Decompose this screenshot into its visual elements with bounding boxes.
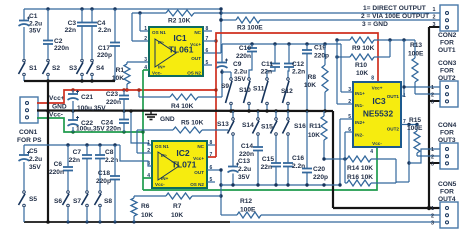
wire GND bottom rail: [24, 220, 440, 224]
svg-text:R1: R1: [116, 67, 125, 74]
svg-text:OS N2: OS N2: [190, 182, 204, 187]
svg-text:S15: S15: [261, 124, 273, 131]
capacitor C1: [19, 9, 43, 59]
wire GND trunk left: [47, 81, 49, 222]
svg-text:C18: C18: [98, 170, 110, 177]
svg-text:IN+: IN+: [158, 65, 166, 70]
capacitor C15: [261, 156, 281, 185]
svg-text:10K: 10K: [308, 132, 320, 139]
svg-text:OUT: OUT: [191, 56, 201, 61]
svg-text:GND: GND: [160, 116, 175, 123]
svg-text:OUT2: OUT2: [438, 75, 456, 82]
svg-text:35V: 35V: [238, 174, 250, 181]
svg-text:R8: R8: [308, 74, 317, 81]
svg-text:IN-: IN-: [158, 40, 165, 45]
svg-text:IC3: IC3: [372, 96, 386, 106]
svg-text:R2 10K: R2 10K: [168, 18, 191, 25]
resistor R4: [170, 94, 198, 110]
svg-text:100E: 100E: [407, 125, 423, 132]
capacitor C21: [68, 90, 107, 112]
legend pin numbers: [433, 7, 436, 28]
svg-text:6: 6: [206, 48, 209, 54]
wire IC3 in2+ riser: [338, 119, 353, 187]
resistor R3: [236, 17, 263, 32]
svg-text:1: 1: [144, 26, 147, 32]
svg-text:OUT4: OUT4: [438, 196, 456, 203]
svg-text:C9: C9: [233, 61, 242, 68]
op-amp IC2: [147, 140, 215, 188]
svg-text:Vcc+: Vcc+: [49, 95, 65, 102]
svg-text:R7: R7: [173, 203, 182, 210]
svg-text:C15: C15: [262, 156, 274, 163]
svg-text:C12: C12: [292, 61, 304, 68]
svg-text:S14: S14: [242, 122, 254, 129]
svg-text:2.2u: 2.2u: [238, 166, 251, 173]
svg-text:IN2+: IN2+: [355, 120, 365, 125]
svg-text:3 = GND: 3 = GND: [362, 21, 388, 28]
svg-text:CON4: CON4: [438, 122, 457, 129]
svg-text:C3: C3: [68, 20, 77, 27]
svg-text:OS N1: OS N1: [152, 30, 166, 35]
switch S7: [73, 191, 88, 222]
wire direct output 1: [221, 12, 440, 14]
legend line3: [362, 21, 388, 28]
capacitor C17: [97, 9, 120, 81]
wire IC1 output riser: [203, 7, 223, 53]
svg-text:NC: NC: [197, 144, 204, 149]
svg-text:S8: S8: [104, 198, 112, 205]
resistor R8: [304, 44, 328, 111]
capacitor C3: [65, 9, 87, 59]
svg-text:3: 3: [431, 162, 434, 168]
switch S8: [95, 191, 113, 222]
svg-text:2: 2: [433, 15, 436, 21]
wire feedback out2: [396, 159, 409, 183]
resistor R5: [173, 120, 204, 134]
svg-text:IN2-: IN2-: [355, 133, 364, 138]
svg-text:C23: C23: [106, 91, 118, 98]
switch S11: [253, 78, 268, 111]
svg-text:Vcc+: Vcc+: [193, 156, 204, 161]
resistor R10: [350, 54, 374, 77]
switch S3: [69, 59, 83, 81]
switch S12: [281, 78, 293, 111]
svg-text:10K: 10K: [112, 75, 124, 82]
svg-text:1: 1: [147, 140, 150, 146]
svg-text:C13: C13: [238, 158, 250, 165]
capacitor C7: [69, 145, 92, 190]
svg-text:2: 2: [431, 93, 434, 99]
capacitor C4: [87, 9, 111, 59]
svg-text:C5: C5: [29, 148, 38, 155]
svg-text:35V: 35V: [29, 28, 41, 35]
svg-text:IN1-: IN1-: [355, 103, 364, 108]
resistor R7: [166, 193, 192, 219]
svg-text:C16: C16: [292, 155, 304, 162]
connector CON3: [431, 60, 458, 107]
svg-text:R16 10K: R16 10K: [347, 174, 373, 181]
svg-text:C1: C1: [29, 13, 38, 20]
svg-text:CON3: CON3: [438, 60, 457, 67]
resistor R15: [407, 117, 440, 156]
svg-text:3: 3: [431, 221, 434, 227]
switch S15: [261, 111, 277, 163]
op-amp IC1: [144, 26, 212, 76]
legend line2: [361, 13, 429, 20]
svg-text:R12: R12: [240, 198, 252, 205]
switch S10: [239, 78, 251, 111]
svg-text:100u,35V: 100u,35V: [76, 126, 105, 133]
wire IC2 out riser: [207, 168, 223, 215]
svg-text:R3 100E: R3 100E: [237, 25, 263, 32]
svg-text:S1: S1: [29, 65, 37, 72]
svg-text:OUT2: OUT2: [387, 127, 400, 132]
svg-text:1: 1: [431, 85, 434, 91]
svg-text:S2: S2: [52, 65, 60, 72]
svg-text:C4: C4: [97, 20, 106, 27]
svg-text:100E: 100E: [408, 51, 424, 58]
wire R4 net: [137, 88, 222, 97]
wire bank4 bus: [221, 183, 340, 186]
svg-text:R15: R15: [409, 117, 421, 124]
svg-text:4: 4: [147, 173, 150, 179]
svg-text:4: 4: [370, 149, 373, 155]
svg-text:Vcc-: Vcc-: [155, 182, 165, 187]
svg-text:3: 3: [144, 57, 147, 63]
svg-text:FOR: FOR: [440, 189, 454, 196]
svg-text:22n: 22n: [261, 69, 272, 76]
capacitor C22: [68, 111, 106, 133]
wire IC3 in2- riser: [345, 132, 353, 183]
svg-text:C14: C14: [241, 143, 253, 150]
resistor R1: [112, 62, 130, 92]
wire R10 net: [335, 40, 390, 59]
legend line1: [363, 5, 426, 12]
svg-text:IC2: IC2: [176, 148, 190, 158]
svg-text:OUT3: OUT3: [438, 137, 456, 144]
svg-text:35V: 35V: [234, 76, 246, 83]
capacitor C14: [239, 143, 263, 185]
svg-text:1= DIRECT OUTPUT: 1= DIRECT OUTPUT: [363, 5, 426, 12]
svg-text:S13: S13: [217, 121, 229, 128]
svg-text:FOR PS: FOR PS: [17, 137, 42, 144]
svg-text:S4: S4: [96, 65, 104, 72]
wire IC3 in1- riser: [337, 40, 353, 104]
svg-text:S6: S6: [54, 198, 62, 205]
svg-text:CON1: CON1: [19, 129, 38, 136]
svg-text:2: 2: [431, 155, 434, 161]
svg-text:2: 2: [431, 214, 434, 220]
svg-text:220p: 220p: [313, 174, 328, 181]
switch S16: [283, 111, 307, 163]
switch S4: [87, 59, 105, 81]
connector CON2: [438, 5, 458, 54]
capacitor C18: [96, 145, 120, 222]
svg-text:8: 8: [371, 76, 374, 82]
svg-text:FOR: FOR: [440, 40, 454, 47]
svg-text:2.2n: 2.2n: [105, 157, 118, 164]
wire R14 net: [322, 157, 396, 160]
svg-text:C7: C7: [73, 149, 82, 156]
svg-text:C8: C8: [105, 149, 114, 156]
svg-text:100E: 100E: [240, 207, 256, 214]
svg-text:FOR: FOR: [440, 130, 454, 137]
wire IC1 pin2 net: [132, 13, 149, 41]
wire OUT2 net: [401, 123, 440, 182]
svg-text:220n: 220n: [236, 53, 251, 60]
svg-text:S12: S12: [281, 88, 293, 95]
svg-text:2 = VIA 100E OUTPUT: 2 = VIA 100E OUTPUT: [361, 13, 429, 20]
wire R9 net: [335, 38, 415, 41]
svg-text:10K: 10K: [304, 82, 316, 89]
wire R2 net: [132, 11, 221, 14]
resistor R13: [408, 40, 440, 94]
svg-text:2.2n: 2.2n: [292, 69, 305, 76]
svg-text:2.2u: 2.2u: [234, 69, 247, 76]
svg-text:R13: R13: [410, 42, 422, 49]
svg-text:Vcc+: Vcc+: [190, 42, 201, 47]
svg-text:7: 7: [210, 152, 213, 158]
capacitor C19: [302, 44, 329, 111]
svg-text:10K: 10K: [141, 212, 153, 219]
svg-text:IN-: IN-: [161, 153, 168, 158]
svg-text:Vcc+: Vcc+: [372, 86, 383, 91]
connector CON5: [431, 181, 458, 228]
resistor R11: [308, 111, 327, 159]
resistor R14: [347, 156, 373, 172]
capacitor C16: [283, 155, 305, 185]
svg-text:1: 1: [431, 206, 434, 212]
svg-text:2.2u: 2.2u: [29, 156, 42, 163]
wire via-100E output 1: [219, 18, 440, 21]
capacitor C11: [261, 44, 280, 78]
svg-text:NE5532: NE5532: [363, 109, 394, 119]
capacitor C24: [101, 111, 129, 133]
wire IC1 pin1 net: [140, 13, 149, 31]
svg-text:220p: 220p: [97, 52, 112, 59]
capacitor C5: [19, 145, 43, 190]
switch S14: [242, 111, 259, 147]
svg-text:2: 2: [147, 148, 150, 154]
svg-text:220n: 220n: [106, 99, 121, 106]
capacitor C23: [106, 90, 129, 111]
svg-text:R6: R6: [141, 203, 150, 210]
capacitor C8: [95, 145, 118, 190]
svg-text:100u,35V: 100u,35V: [77, 105, 106, 112]
resistor R9: [350, 37, 375, 52]
svg-text:IN1+: IN1+: [355, 91, 365, 96]
svg-text:220n: 220n: [106, 126, 121, 133]
svg-text:R5 10K: R5 10K: [181, 120, 204, 127]
svg-text:FOR: FOR: [440, 68, 454, 75]
switch S1: [19, 59, 38, 81]
wire Vcc+ red: [37, 33, 378, 157]
connector CON1: [17, 97, 42, 144]
svg-text:NC: NC: [194, 30, 201, 35]
svg-text:35V: 35V: [29, 164, 41, 171]
switch S6: [54, 191, 69, 222]
wire R5 net: [129, 109, 228, 153]
wire junctions gnd mid: [229, 109, 326, 112]
capacitor C9: [217, 44, 248, 97]
svg-text:3: 3: [431, 100, 434, 106]
wire OUT1 net: [401, 40, 440, 96]
wire IC1 pin7 stub: [203, 40, 216, 42]
svg-text:S11: S11: [253, 86, 265, 93]
svg-text:3: 3: [348, 87, 351, 93]
wire bank3 rail: [24, 143, 152, 166]
svg-text:OS N2: OS N2: [187, 71, 201, 76]
svg-text:2: 2: [144, 36, 147, 42]
wire GND main: [37, 27, 440, 210]
resistor R6: [131, 196, 153, 222]
svg-text:22n: 22n: [261, 164, 272, 171]
svg-text:10K: 10K: [171, 212, 183, 219]
svg-text:R14 10K: R14 10K: [347, 165, 373, 172]
svg-text:C10: C10: [239, 45, 251, 52]
svg-text:C2: C2: [54, 38, 63, 45]
svg-text:22n: 22n: [65, 27, 76, 34]
wire gnd rail bank1: [24, 79, 115, 82]
capacitor C6: [49, 145, 73, 190]
svg-text:IC1: IC1: [173, 33, 187, 43]
wire Vcc- green: [37, 70, 377, 190]
svg-text:Vcc-: Vcc-: [372, 141, 382, 146]
svg-text:R11: R11: [309, 123, 321, 130]
svg-text:OUT: OUT: [194, 170, 204, 175]
capacitor C20: [302, 111, 328, 185]
wire R7 net: [134, 195, 221, 197]
svg-text:10K: 10K: [356, 70, 368, 77]
ground symbol: [145, 111, 175, 123]
resistor R2: [166, 10, 194, 25]
svg-text:Vcc-: Vcc-: [152, 71, 162, 76]
svg-text:3: 3: [433, 22, 436, 28]
svg-text:220n: 220n: [54, 45, 69, 52]
op-amp IC3: [348, 76, 406, 156]
svg-text:S16: S16: [294, 123, 306, 130]
switch S13: [217, 111, 234, 167]
svg-text:C20: C20: [313, 166, 325, 173]
capacitor C12: [284, 44, 305, 78]
svg-text:S10: S10: [239, 87, 251, 94]
svg-text:2.2n: 2.2n: [98, 27, 111, 34]
svg-text:2: 2: [348, 99, 351, 105]
svg-text:OS N1: OS N1: [155, 144, 169, 149]
resistor R12: [237, 198, 261, 218]
switch S9: [221, 72, 232, 111]
svg-text:220p: 220p: [314, 53, 329, 60]
svg-text:S7: S7: [73, 198, 81, 205]
svg-text:C17: C17: [98, 45, 110, 52]
svg-text:1: 1: [431, 147, 434, 153]
svg-text:C21: C21: [81, 94, 93, 101]
svg-text:R10: R10: [355, 62, 367, 69]
wire R16 net: [345, 182, 396, 184]
svg-text:S9: S9: [221, 83, 229, 90]
resistor R16: [347, 174, 373, 186]
capacitor C2: [43, 9, 69, 59]
capacitor C10: [236, 44, 257, 78]
label GND: [52, 104, 67, 111]
switch S5: [19, 191, 38, 222]
svg-text:CON5: CON5: [438, 181, 457, 188]
svg-text:R4 10K: R4 10K: [171, 103, 194, 110]
svg-text:R9 10K: R9 10K: [352, 45, 375, 52]
wire IC3 in1+ riser: [341, 44, 353, 92]
connector CON4: [431, 122, 458, 169]
wire IC1 pin3 net: [127, 61, 149, 63]
svg-text:S3: S3: [69, 65, 77, 72]
label Vcc-: [49, 112, 63, 119]
svg-text:OUT1: OUT1: [387, 94, 400, 99]
svg-text:OUT1: OUT1: [438, 47, 456, 54]
capacitor C13: [228, 158, 252, 185]
svg-text:IN+: IN+: [161, 176, 169, 181]
svg-text:220n: 220n: [239, 151, 254, 158]
svg-text:CON2: CON2: [438, 32, 457, 39]
switch S2: [43, 59, 61, 81]
wire bank2 rail: [222, 42, 341, 45]
svg-text:22n: 22n: [69, 157, 80, 164]
svg-text:C11: C11: [261, 61, 273, 68]
label Vcc+: [49, 95, 65, 102]
svg-text:220p: 220p: [96, 178, 111, 185]
svg-text:C6: C6: [54, 161, 63, 168]
svg-text:S5: S5: [29, 196, 37, 203]
svg-text:220n: 220n: [49, 169, 64, 176]
wire R12 net: [221, 214, 440, 216]
svg-text:2.2u: 2.2u: [29, 21, 42, 28]
wire top rail bank1: [24, 7, 221, 10]
svg-text:1: 1: [433, 7, 436, 13]
